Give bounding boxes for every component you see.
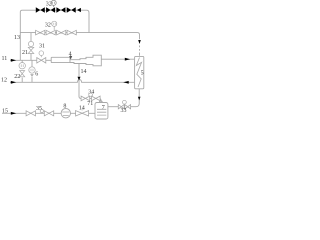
svg-text:12: 12: [1, 77, 7, 83]
svg-text:33: 33: [121, 108, 127, 114]
svg-text:8: 8: [63, 103, 66, 109]
svg-text:7: 7: [102, 105, 105, 111]
svg-text:31: 31: [39, 44, 45, 50]
svg-text:32: 32: [45, 23, 51, 29]
svg-text:5: 5: [141, 70, 144, 76]
svg-text:15: 15: [2, 108, 8, 114]
svg-text:13: 13: [14, 35, 20, 41]
svg-text:21: 21: [22, 50, 28, 56]
svg-text:32: 32: [46, 1, 52, 7]
svg-text:22: 22: [14, 74, 20, 80]
svg-text:11: 11: [2, 56, 8, 62]
svg-text:6: 6: [35, 71, 38, 77]
svg-text:14: 14: [81, 69, 87, 75]
svg-text:71: 71: [87, 101, 93, 107]
svg-text:14: 14: [79, 106, 85, 112]
